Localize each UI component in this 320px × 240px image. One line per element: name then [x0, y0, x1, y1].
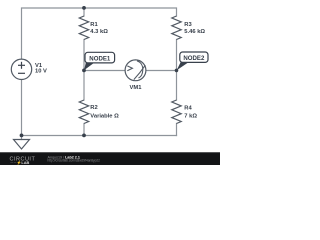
- svg-text:∼∼⚡LAB: ∼∼⚡LAB: [10, 160, 30, 165]
- svg-text:R1: R1: [90, 22, 98, 28]
- svg-text:R2: R2: [90, 105, 97, 111]
- svg-text:10 V: 10 V: [35, 68, 47, 74]
- svg-text:NODE1: NODE1: [89, 55, 111, 62]
- svg-text:4.3 kΩ: 4.3 kΩ: [90, 29, 108, 35]
- svg-text:R3: R3: [184, 22, 192, 28]
- svg-text:NODE2: NODE2: [183, 55, 205, 62]
- svg-text:Variable Ω: Variable Ω: [90, 114, 119, 120]
- svg-text:5.46 kΩ: 5.46 kΩ: [184, 29, 205, 35]
- svg-text:R4: R4: [184, 106, 192, 112]
- svg-text:http://circuitlab.com/c8w29f4a: http://circuitlab.com/c8w29f4an8yp22: [48, 159, 101, 163]
- svg-text:VM1: VM1: [130, 85, 143, 91]
- svg-text:7 kΩ: 7 kΩ: [184, 114, 197, 120]
